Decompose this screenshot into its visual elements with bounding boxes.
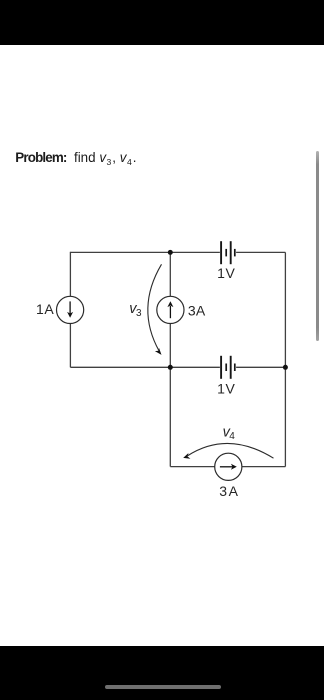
battery top 1V [221,241,235,264]
svg-text:3 A: 3 A [219,483,238,499]
current source 1A (left, arrow down) [57,296,84,323]
wire bottom horizontal left (to current source) [170,466,215,468]
wire right vertical [284,252,286,466]
home indicator [105,685,221,689]
wire left vertical lower [69,324,71,368]
node B (middle junction) [168,365,173,370]
svg-text:1A: 1A [36,301,54,317]
node A (top middle junction) [168,250,173,255]
right scrollbar indicator [316,151,319,341]
voltage arrow v3 (curved, pointing down) [148,264,162,355]
label 3 A (middle source) [188,303,206,319]
label 1 V (bottom battery) [217,381,235,397]
label 1 A [36,301,54,317]
current source 3A (bottom, arrow right) [215,453,242,480]
battery bottom 1V [221,356,235,379]
svg-text:4: 4 [229,431,235,442]
voltage arrow v4 (curved, pointing left) [183,443,273,458]
problem statement text [15,150,136,165]
svg-text:1V: 1V [217,381,235,397]
wire top-left horizontal (node A to battery) [70,251,220,253]
svg-text:3: 3 [136,308,142,319]
wire top-right horizontal (battery to right corner) [236,251,285,253]
wire middle vertical lower [169,324,171,368]
wire middle vertical bottom branch [169,367,171,466]
current source 3A (middle, arrow up) [157,296,184,323]
label 1 V (top battery) [217,265,235,281]
top status black bar [0,0,324,45]
wire middle vertical upper [169,252,171,296]
svg-text:1V: 1V [217,265,235,281]
bottom black bar [0,646,324,700]
label v4 [223,424,236,442]
node C (right middle junction) [283,365,288,370]
wire bottom horizontal right (current source to right corner) [242,466,286,468]
wire middle horizontal left (left corner to battery) [70,366,220,368]
svg-text:3A: 3A [188,303,206,319]
label v3 [129,301,142,319]
wire left vertical upper [69,252,71,296]
label 3 A (bottom source) [219,483,238,499]
wire middle horizontal right (battery to node C) [236,366,285,368]
